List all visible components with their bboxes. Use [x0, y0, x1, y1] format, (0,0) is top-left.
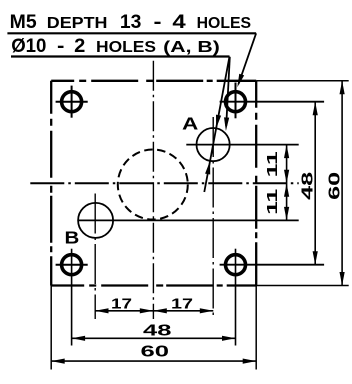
dimension 48 right	[314, 102, 316, 265]
leader from M5 note to top-right M5 hole	[239, 33, 257, 84]
horizontal centerline of plate	[30, 182, 298, 184]
dimension 11 lower right	[284, 183, 289, 197]
underline of M5 note	[7, 32, 256, 34]
svg-text:HOLES: HOLES	[197, 15, 252, 32]
svg-text:HOLES: HOLES	[96, 39, 156, 56]
vertical centerline of plate	[152, 61, 154, 319]
hole A vertical centerline / extension	[212, 117, 214, 319]
svg-text:4: 4	[172, 12, 186, 33]
M5 hole bottom-right ring	[226, 255, 246, 275]
svg-text:-: -	[154, 12, 162, 33]
svg-text:B: B	[65, 228, 80, 248]
M5 hole bottom-right cross and extensions	[220, 264, 325, 266]
svg-text:A: A	[182, 114, 199, 134]
svg-text:11: 11	[264, 151, 281, 177]
svg-text:2: 2	[74, 36, 85, 57]
hole B circle	[78, 203, 113, 238]
svg-text:-: -	[57, 36, 64, 57]
note text Ø10 - 2 HOLES (A, B)	[11, 36, 220, 57]
M5 hole top-left ring	[62, 92, 82, 112]
second leader branch from Ø10 note to hole A edge	[226, 57, 230, 126]
central port circle (dashed)	[118, 150, 188, 220]
dimension 60 right	[341, 81, 343, 286]
M5 hole bottom-left ring	[62, 255, 82, 275]
svg-text:DEPTH: DEPTH	[47, 15, 108, 32]
svg-text:48: 48	[143, 323, 172, 340]
M5 hole top-right cross and extension to 48 dim	[220, 101, 325, 103]
svg-text:60: 60	[141, 344, 170, 361]
extension line top right	[256, 80, 349, 82]
svg-text:(A, B): (A, B)	[163, 39, 220, 56]
underline of Ø10 note	[11, 55, 230, 57]
note text M5 DEPTH 13 - 4 HOLES	[10, 12, 251, 33]
dimension 11 upper right	[286, 145, 288, 221]
diameter dimension line of Ø10 through hole A	[204, 57, 229, 193]
svg-text:17: 17	[171, 296, 193, 313]
plate outline top edge (chain line)	[51, 80, 256, 82]
svg-text:13: 13	[120, 12, 141, 33]
dimension 60 bottom	[51, 360, 256, 362]
svg-text:Ø10: Ø10	[11, 36, 46, 57]
plate outline left edge (chain line)	[50, 81, 52, 286]
hole A circle	[197, 128, 230, 161]
M5 hole bottom-left cross and extension to 48 dim	[56, 264, 88, 266]
hole A horizontal centerline / extension	[186, 144, 298, 146]
svg-text:11: 11	[264, 189, 281, 215]
M5 hole top-left cross	[56, 101, 88, 103]
hole B vertical centerline / extension	[94, 194, 96, 320]
plate outline right edge (chain line)	[255, 81, 257, 286]
extension line 60 bottom left	[50, 286, 52, 370]
plate outline bottom edge (chain line)	[51, 284, 256, 286]
hole B horizontal centerline / extension	[78, 219, 299, 221]
extension line bottom right	[256, 285, 349, 287]
svg-text:17: 17	[111, 296, 132, 313]
dimension 48 bottom	[72, 337, 236, 339]
M5 hole top-right ring	[226, 92, 246, 112]
svg-text:M5: M5	[10, 12, 37, 33]
svg-text:60: 60	[327, 172, 344, 200]
extension line 60 bottom right	[255, 286, 257, 370]
svg-text:48: 48	[300, 171, 317, 200]
dimension 17 17 bottom	[95, 310, 213, 312]
